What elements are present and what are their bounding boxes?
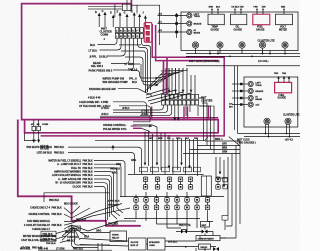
wire: highlighted stub cruise row [131,125,137,127]
wire: lamp bus below box [186,53,300,55]
wire: cruise row arrow [137,125,150,127]
label: PNK BLK tags column [54,147,93,188]
pin letters [116,29,139,38]
wire: connector top pin drops [163,68,195,94]
wire: bus line 2 below cluster2 [244,136,300,138]
wire: door sw row line 2 [119,106,151,115]
boxed tag PNK BLK row 2 [41,237,56,242]
wire: inst lite box drop [204,227,206,236]
wire: lamp drops [196,48,286,53]
wire: entry stubs [232,84,248,105]
MAGENTA HIGHLIGHT CIRCUIT [18,0,224,226]
MID RIGHT CLUSTER [232,66,300,144]
wire: black corner from magenta return [25,133,37,141]
wire: right risers from connector to right bus [199,98,214,154]
svg-text:RADIO: RADIO [201,246,208,249]
small connector marks top right [222,216,228,221]
arrowheads on wiper rows [156,77,159,87]
svg-text:PRLY LITE: PRLY LITE [179,225,191,227]
label: riser wire tags [95,10,144,14]
boxed tag at hub lower right [69,226,81,231]
inst lite small box [201,222,210,228]
svg-text:BLK: BLK [185,138,190,140]
wire: verticals to bottom edge [98,243,102,251]
label: entry wire tags [158,14,162,32]
svg-text:SPEAKER: SPEAKER [149,241,160,244]
svg-text:PNK BLK: PNK BLK [110,168,121,170]
radio box [199,244,211,249]
wire: vertical at x127 top [126,0,128,11]
svg-text:GRY: GRY [222,144,227,146]
wire: right column drops [225,195,236,238]
svg-text:INST: INST [202,225,207,227]
wire: divider line below cluster [186,65,300,67]
inline connector 4F half [32,126,36,130]
wire: fanout row lines to bottom section [68,147,142,222]
label: left wire tags [89,44,108,59]
fuel gauge highlighted box [275,82,292,92]
label: indicator names [194,14,202,35]
indicator BRAKE [248,88,253,93]
connector block row 1 [115,28,143,33]
svg-text:PNK BLK: PNK BLK [108,224,119,226]
svg-text:ORG: ORG [112,173,117,175]
svg-text:ORG: ORG [96,231,101,233]
bowtie contact left [181,230,187,234]
indicator BRAKE [187,21,192,26]
arrowhead down on 4F wire [32,140,35,143]
svg-text:HORN: HORN [112,234,119,236]
wire: door sw row line 1 [113,102,147,115]
wire: connector underside fanout to left labels [98,38,134,70]
wire: BRN line [205,140,240,142]
label: indicator names [255,82,263,106]
wire: right bus verticals [228,141,240,224]
glove box lamp box [129,238,147,250]
cluster lamp 2 [217,42,223,48]
indicator HI BEAM [187,29,192,34]
cluster lamp 1 [264,118,270,124]
fuel gauge highlighted [253,14,270,25]
wire: boxed tag leads [56,230,70,243]
wire: upper cross horizontals [120,175,212,219]
wire: lower connections [112,221,213,228]
junction dots on lamp bus [209,53,286,55]
wire: lower rows converge to hub [62,208,74,241]
svg-text:GLOVE: GLOVE [131,242,139,244]
inline connector 4M half [37,126,41,130]
arrowheads up [98,12,147,19]
inline connector 4M wire [38,120,40,141]
wire: connector underside drops to bundle [119,38,158,93]
wire: hub crossing diagonals [71,204,131,241]
wire: magenta pair down to lower connector [163,61,165,95]
volt meter [276,14,293,25]
label: A/C tags right [229,102,233,108]
boxed tag PNK BLK row 1 [41,231,56,236]
wire: magenta drop right of connector [208,106,210,119]
fuse box top small [122,4,131,10]
wire: top feed line 1 [88,5,122,7]
cluster lamp 4 [259,42,265,48]
wire: fan feed diagonals into connector top [146,68,188,93]
svg-text:RELAY: RELAY [112,237,120,240]
wire: highlighted pair from cluster connector down and right [41,24,225,136]
wire: vertical at x115 [114,5,116,18]
wire: bus riser stubs [210,51,270,54]
wire: hub bundle down to bottom [72,233,99,248]
svg-text:TAN: TAN [194,137,199,140]
wire: lower crossing diagonals into pins [146,88,191,104]
wire: entry stubs left [158,13,187,38]
label: wire tags left of fanout [101,108,149,116]
cluster lamp 1 [192,42,198,48]
wire: lamp drops to lower bus [266,124,290,137]
svg-text:GRA: GRA [84,236,89,239]
junction dots [265,133,291,138]
wire: magenta drop on far left to bottom hub [18,120,141,226]
wire: temp gauge top stubs [212,9,218,14]
wire: up arrow stub at 113 [112,148,114,151]
wire: bottom edge line [38,249,112,251]
wire: compartment to radio link [196,236,205,251]
svg-text:ORG: ORG [176,138,181,140]
svg-text:ORG: ORG [116,164,121,166]
oil gauge [231,14,247,25]
indicator LEFT TURN [248,81,253,86]
wire: cruise row line [133,125,157,127]
wire: vertical bus at x137 to cluster frame [137,5,160,45]
switch pair right [216,177,220,189]
wire: black verticals beside magenta pair [233,66,235,130]
arrowheads at wire ends [144,163,191,169]
wire: magenta stub below connector [151,107,153,120]
connector block row 2 [162,100,199,105]
bowtie contact right [202,230,208,234]
label: INST CLUSTER CONN [100,27,112,41]
cluster lamp 3 [239,42,245,48]
wire: fuel gauge top stubs [257,9,263,14]
wire: left bus vertical [237,66,239,134]
arrowheads down into connector [162,90,192,93]
svg-text:/ RAD: / RAD [149,244,155,247]
compartment box [196,236,220,241]
wire: extra stubs right of switch area [212,157,228,197]
wire: top feed line 2 [88,8,122,10]
arrowheads down [173,118,179,121]
highlighted pin 1 [146,25,150,29]
arrowheads extra [219,172,226,188]
indicator ALT [248,102,253,107]
instrument cluster box w/gauges [181,12,298,51]
wire: pulse row diagonal [142,128,151,131]
svg-text:ORN: ORN [222,152,227,154]
LOWER CONNECTOR [101,66,240,154]
wire: GRY line [197,145,240,147]
inst lite rheostat box [201,176,211,196]
svg-text:4•: 4• [185,245,187,248]
wire: short highlighted segment mid-left [133,127,142,129]
boxed tag row above switches [140,167,201,172]
temp gauge [208,14,224,25]
wire: fuel gauge top stubs w/arrows [279,77,290,83]
speaker box [148,238,166,250]
svg-text:GRY: GRY [149,138,154,140]
wire: lamp bus second line [186,55,300,57]
wire: two arrow drops below connector [175,105,178,119]
horn relay box [110,231,127,242]
BOTTOM SECTION [46,127,240,251]
wire: second parallel highlighted feed [156,25,219,61]
wire: stub right of fuse box [131,4,137,6]
wire: ORN line [183,153,240,155]
wire: row B risers [136,192,208,231]
bowtie bottom edge [213,247,219,251]
wire: bus line 1 below cluster2 [238,133,300,135]
wire: band top black line [100,115,150,117]
wire: oil gauge top stubs [235,9,241,14]
highlighted pin 2 [146,31,150,35]
svg-text:PNK BLK: PNK BLK [46,243,56,245]
switch row A [143,177,147,189]
pin squares [240,83,243,106]
wire: highlighted loop box upper-left [22,0,219,133]
highlighted pin 3 [146,37,150,41]
pin squares on bus [175,14,178,33]
svg-text:BRN •••: BRN ••• [215,139,223,141]
inline connector 4F wire [33,120,35,141]
TOP RIGHT CLUSTER [158,6,301,66]
wire: diagonal into bottom right [229,137,240,146]
label: tiny wire tags above switch verticals [149,137,199,140]
wire: extra mid horizontals [133,116,150,122]
wire: connector bottom fanout to left [113,105,198,116]
wire: magenta pair overlay between connectors [164,57,168,94]
wire: lower return black line [95,137,208,141]
wire: hub vertical down [71,225,73,233]
svg-text:CRG: CRG [131,160,136,162]
switch row B [134,198,138,210]
svg-text:BOX LT: BOX LT [131,245,140,247]
svg-text:BRN: BRN [222,148,227,150]
connector block row 2 [115,33,143,38]
wire: BRN2 line [190,149,240,151]
wire: vertical drops from mid band [145,127,198,176]
highlighted connector cavity box [144,23,152,43]
label: PNK tags lower [32,207,62,249]
MIDDLE BAND TEXTS [79,101,208,150]
wire: feeds to bottom boxes [80,230,226,247]
cluster lamp 5 [282,42,288,48]
indicator HI BEAM [248,95,253,100]
instrument cluster box w/o gauges [244,77,298,127]
LEFT FANOUT [20,120,142,251]
cluster lamp 2 [285,118,291,124]
connector block row 1 [162,94,199,99]
wire: parking brake line [118,89,152,96]
wire: riser arrows above connector [99,14,145,27]
label: left tags of bottom section [110,160,136,175]
wire: clock drop line [44,193,110,202]
indicator LEFT TURN [187,13,192,18]
svg-text:BRN: BRN [158,138,163,140]
wire: volt top stub [283,9,285,14]
TOP LEFT CONNECTOR ASSEMBLY [88,0,160,100]
wire: magenta pair below lower connector to band [183,106,185,119]
wire: band doubling magenta line [100,117,218,119]
arrowhead down on 4M wire [37,140,40,143]
